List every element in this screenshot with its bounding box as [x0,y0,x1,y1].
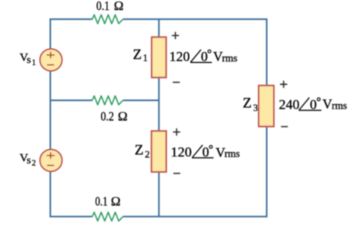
svg-text:0: 0 [310,97,317,112]
source Vs1 [40,49,62,71]
label Vs1 [20,50,36,67]
svg-text:1: 1 [143,53,148,64]
svg-text:2: 2 [145,149,150,160]
wire middle horizontal [50,99,159,101]
label Z1 [133,47,148,64]
svg-text:Ω: Ω [114,0,124,13]
impedance Z2 [152,131,167,172]
impedance Z1 [152,37,166,77]
wire right branch [266,19,268,216]
svg-text:rms: rms [225,149,240,160]
label Z3 [243,96,258,114]
svg-text:Ω: Ω [111,193,121,208]
svg-text:120: 120 [171,145,192,160]
polarity minus Z2 [173,172,180,174]
svg-text:120: 120 [169,49,190,64]
polarity minus Z1 [173,81,180,83]
source Vs2 [40,149,62,171]
polarity plus Z3 [280,81,287,88]
label 240V Z3 [279,97,347,113]
resistor 0.1ohm bottom [92,212,123,221]
svg-text:Z: Z [135,143,144,159]
svg-text:240: 240 [279,97,300,112]
svg-text:Z: Z [243,96,252,112]
svg-text:0.1: 0.1 [95,193,108,208]
resistor 0.2ohm middle [92,96,123,105]
svg-text:rms: rms [222,53,237,64]
svg-text:0.2: 0.2 [101,108,114,123]
svg-text:0: 0 [201,49,208,64]
wire middle branch [158,19,160,216]
svg-text:0.1: 0.1 [96,0,109,13]
svg-text:3: 3 [253,103,258,114]
svg-text:0: 0 [202,144,209,159]
wire top [50,18,268,20]
label Z2 [135,143,150,161]
impedance Z3 [259,86,274,127]
resistor 0.1ohm top [92,15,123,24]
polarity plus Z2 [173,128,180,135]
svg-text:Ω: Ω [118,108,128,123]
label Vs2 [20,150,36,167]
svg-text:rms: rms [332,101,347,112]
svg-text:1: 1 [32,58,36,67]
wire bottom [50,216,268,218]
svg-text:s: s [27,54,31,66]
polarity plus Z1 [172,32,179,39]
svg-text:2: 2 [32,158,36,167]
label 120V Z2 [171,144,240,160]
polarity minus Z3 [281,126,288,128]
label 120V Z1 [169,49,237,65]
svg-text:Z: Z [133,47,142,63]
wire left branch [49,19,51,216]
svg-text:s: s [27,154,31,166]
